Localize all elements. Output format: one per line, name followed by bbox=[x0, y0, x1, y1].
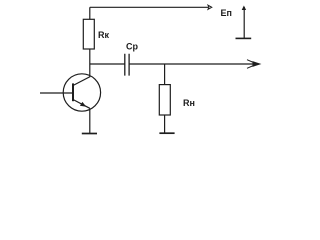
transistor VT1 emitter arrowhead bbox=[80, 102, 86, 107]
wire: emitter to ground bbox=[89, 108, 91, 133]
wire: rail corner to resistor R1 top bbox=[89, 7, 91, 19]
wire: base lead bbox=[40, 92, 73, 94]
svg-text:Rн: Rн bbox=[183, 98, 195, 108]
transistor VT1 base bar bbox=[72, 83, 74, 101]
ground under R2 bbox=[159, 132, 174, 134]
transistor VT1 emitter lead bbox=[73, 100, 90, 109]
capacitor C1 plates bbox=[125, 54, 129, 76]
wire: capacitor C1 to output bbox=[129, 63, 253, 65]
wire: collector node to capacitor C1 bbox=[90, 63, 125, 65]
wire: top supply rail bbox=[90, 6, 209, 8]
output arrowhead bbox=[247, 60, 254, 69]
supply En measure line bbox=[243, 7, 245, 38]
arrowhead up on En line bbox=[242, 6, 246, 11]
wire: resistor R2 to ground bbox=[164, 115, 166, 133]
resistor R1 Rk bbox=[83, 19, 94, 49]
arrowhead at end of supply rail bbox=[208, 5, 212, 9]
wire: resistor R1 bottom to collector node bbox=[89, 49, 91, 64]
ground under emitter bbox=[82, 133, 97, 135]
svg-text:Rк: Rк bbox=[98, 30, 109, 40]
resistor R2 Rn bbox=[159, 85, 170, 115]
svg-text:Eп: Eп bbox=[221, 8, 232, 18]
ground bar of En line bbox=[236, 37, 252, 39]
wire: junction down to resistor R2 bbox=[164, 64, 166, 85]
transistor VT1 collector lead bbox=[73, 64, 90, 86]
transistor VT1 body bbox=[63, 74, 100, 111]
svg-text:Cр: Cр bbox=[126, 41, 138, 51]
